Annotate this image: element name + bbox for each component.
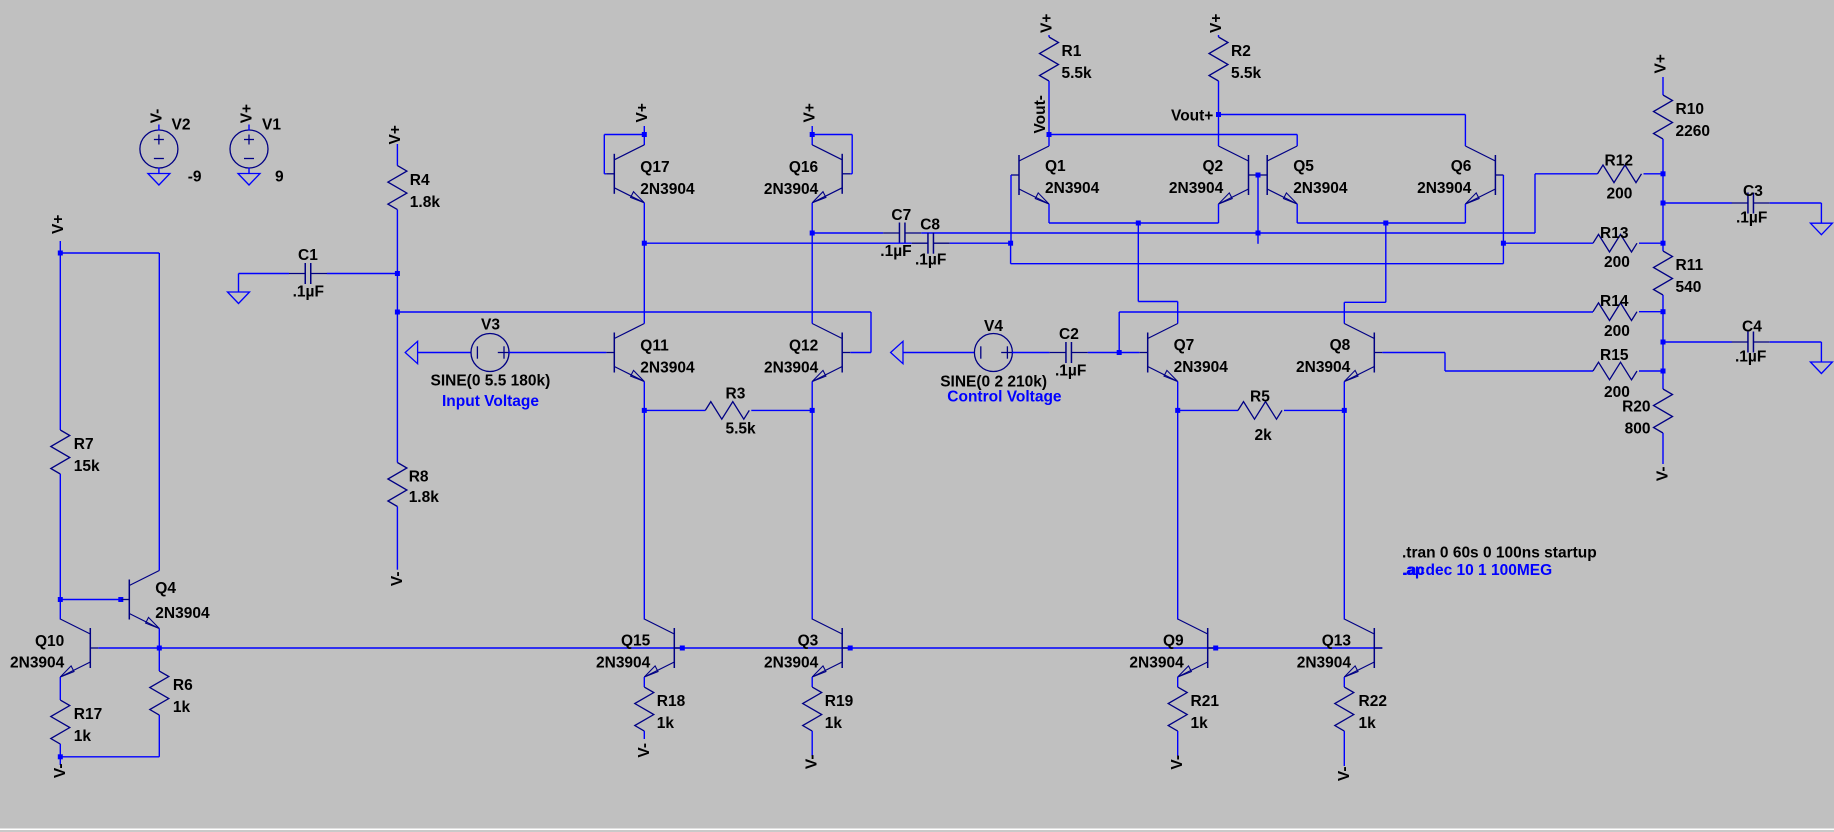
wire Vout+ to Q2 collector [1218,115,1220,147]
junction node V+ left [58,251,63,256]
wire Q5-Q6 emitter run [1297,222,1465,224]
wire Q16 base tie down [851,135,853,174]
wire emitters down to Q7 [1137,223,1139,302]
svg-text:200: 200 [1607,185,1633,202]
svg-text:Q1: Q1 [1045,158,1066,175]
svg-text:.1µF: .1µF [1055,363,1086,380]
svg-text:Q4: Q4 [155,580,176,597]
svg-text:V-: V- [1336,767,1353,782]
resistor R8 [388,463,407,507]
junction C3/rail [1661,201,1666,206]
wire rail to C3 [1663,202,1732,204]
svg-text:2N3904: 2N3904 [1293,180,1348,197]
svg-text:.1µF: .1µF [1735,349,1766,366]
wire Q2-Q5 base tie [1257,174,1260,176]
svg-text:Q7: Q7 [1174,337,1195,354]
wire C3 to ground corner [1770,202,1822,204]
svg-text:2N3904: 2N3904 [1297,655,1352,672]
wire Q7 collector stub [1177,302,1179,324]
svg-text:V-: V- [804,755,821,770]
svg-text:200: 200 [1604,384,1630,401]
svg-text:200: 200 [1604,254,1630,271]
wire down to Q6 collector [1464,115,1466,147]
wire rail to C4 [1663,341,1732,343]
junction R12/rail [1661,171,1666,176]
wire R6 top to rail [158,648,160,671]
resistor R1 [1040,37,1059,81]
wire C2 to Q7 base [1088,352,1140,354]
wire R1 to Vout- node [1048,81,1050,135]
svg-text:C1: C1 [298,247,318,264]
resistor R3 [705,402,749,420]
junction Q16 emitter [810,231,815,236]
port arrow at V4 [891,341,903,363]
capacitor C7 [883,223,921,244]
svg-text:200: 200 [1604,323,1630,340]
wire V1 minus stub [248,168,250,174]
junction R7/Q4 base/Q10 collector [58,597,63,602]
junction R15/rail [1661,369,1666,374]
junction R14/rail [1661,309,1666,314]
wire C7 long run [921,232,1535,234]
svg-text:Q10: Q10 [35,633,64,650]
wire jog to Q8 collector [1344,301,1386,303]
transistor Q1 [1011,146,1049,204]
wire ground to C1 [239,273,290,275]
port arrow at V3 [405,341,417,363]
wire Q17 base tie down [603,135,605,174]
svg-text:Control Voltage: Control Voltage [947,389,1062,406]
wire C8 to Q1 base node [950,242,1011,244]
wire R21 to V- [1177,731,1179,756]
resistor R2 [1209,37,1228,81]
svg-text:.1µF: .1µF [880,243,911,260]
transistor Q2 [1219,146,1257,204]
wire Q1 emitter down [1048,204,1050,223]
svg-text:V+: V+ [239,104,256,123]
voltage source V2 [140,130,178,168]
svg-text:Q8: Q8 [1330,337,1351,354]
svg-text:1k: 1k [1191,715,1209,732]
svg-text:Vout-: Vout- [1032,95,1049,133]
svg-text:1k: 1k [825,715,843,732]
svg-text:2260: 2260 [1676,123,1710,140]
svg-text:1k: 1k [1359,715,1377,732]
wire Q16 collector stub [811,135,813,146]
junction C8/Q1 base [1008,241,1013,246]
svg-text:1.8k: 1.8k [409,489,440,506]
svg-text:V+: V+ [1208,14,1225,33]
wire R18 to V- [643,731,645,739]
wire corner down to Q12 base [870,312,872,353]
svg-text:2N3904: 2N3904 [596,655,651,672]
resistor R7 [51,430,70,474]
svg-text:Q15: Q15 [621,633,651,650]
junction Q17 collector tie [642,132,647,137]
wire Q10 emitter to R17 [59,677,61,700]
resistor R13 [1593,234,1637,252]
wire V+ to R1 [1048,35,1050,37]
transistor Q7 [1140,324,1178,382]
junction Q15 base on rail [680,646,685,651]
transistor Q17 [606,145,644,203]
wire V4 to C2 [1012,352,1050,354]
resistor R4 [388,166,407,210]
svg-text:R20: R20 [1622,399,1650,416]
svg-text:Q9: Q9 [1163,633,1184,650]
wire C4 to ground corner [1770,341,1822,343]
resistor R14 [1593,303,1637,321]
svg-text:R14: R14 [1600,293,1629,310]
wire arrow to V3 [417,352,472,354]
svg-text:R15: R15 [1600,347,1629,364]
svg-text:V+: V+ [1653,54,1670,73]
svg-text:.1µF: .1µF [1736,210,1767,227]
capacitor C3 [1732,193,1770,214]
svg-text:1k: 1k [657,715,675,732]
resistor R17 [51,700,70,744]
junction C4/rail [1661,340,1666,345]
wire Q1-Q2 emitter run [1049,222,1219,224]
wire R17 to V- node [59,744,61,757]
wire Q2 emitter down [1218,204,1220,223]
wire Q6 base down [1502,175,1504,243]
wire V+ stub [59,241,61,253]
wire V2 plus stub [158,125,160,131]
wire V2 minus stub [158,168,160,174]
svg-text:V-: V- [52,764,69,779]
wire to R15 [1445,370,1593,372]
svg-text:V-: V- [148,109,165,124]
svg-text:V+: V+ [802,103,819,122]
resistor R21 [1168,687,1187,731]
wire jog to Q7 collector [1138,301,1177,303]
junction R5 right [1342,408,1347,413]
svg-text:R19: R19 [825,693,854,710]
resistor R22 [1335,687,1354,731]
resistor R12 [1598,165,1642,183]
wire node down [396,274,398,313]
wire Q17 emitter down [643,203,645,243]
svg-text:R8: R8 [409,468,429,485]
svg-text:V+: V+ [387,125,404,144]
wire to Q12 base pin [850,352,871,354]
resistor R20 [1654,389,1673,433]
resistor R18 [635,687,654,731]
voltage source V3 [471,334,510,372]
wire R5 right lead [1284,409,1344,411]
wire node down [1010,243,1012,264]
wire C1 to node [327,273,398,275]
svg-text:Q11: Q11 [640,338,669,355]
junction Q9 base on rail [1213,646,1218,651]
transistor Q6 [1465,146,1503,204]
wire Q16 base tie top [812,134,852,136]
wire V+ to R4 [396,144,398,166]
wire Q8 emitter down [1343,382,1345,411]
svg-text:C3: C3 [1743,183,1763,200]
wire down to ground [1820,203,1822,223]
svg-text:2N3904: 2N3904 [640,360,695,377]
svg-text:C7: C7 [891,207,911,224]
svg-text:R13: R13 [1600,225,1629,242]
junction Q5/Q6 emitters [1383,221,1388,226]
junction Q3 base on rail [848,646,853,651]
resistor R6 [150,671,169,715]
transistor Q16 [812,145,850,203]
wire R4 to C1 node [396,210,398,274]
transistor Q4 [121,571,159,629]
svg-text:R22: R22 [1359,693,1387,710]
svg-text:.ac: .ac [1404,562,1426,579]
svg-text:R17: R17 [74,706,102,723]
ground at C4 [1810,362,1832,374]
wire V3 to Q11 base [509,352,607,354]
wire Q8 collector stub [1343,302,1345,323]
transistor Q5 [1259,146,1297,204]
transistor Q3 [812,619,850,677]
junction R8 node [395,310,400,315]
wire R11 to R20 [1662,295,1664,389]
wire Q4 emitter down [158,629,160,649]
wire R7 to node [59,474,61,620]
resistor R19 [803,687,822,731]
svg-text:R7: R7 [74,436,94,453]
svg-text:R6: R6 [173,677,193,694]
wire Q9 emitter to R21 [1177,677,1179,687]
svg-text:R3: R3 [726,385,746,402]
ground at C1 [228,292,250,304]
wire R3 left lead [644,409,705,411]
svg-text:V+: V+ [50,215,67,234]
junction Q4 emitter/Q10 base/R6 [157,646,162,651]
wire Q16 emitter down [811,203,813,233]
wire Q3 emitter to R19 [811,677,813,687]
svg-text:Q5: Q5 [1293,158,1314,175]
wire run to R14 [1119,311,1593,313]
wire arrow to V4 [903,352,975,354]
wire node to R8 [396,312,398,463]
svg-text:2N3904: 2N3904 [1045,180,1100,197]
svg-text:Vout+: Vout+ [1171,108,1213,125]
wire V+ to R2 [1218,35,1220,37]
ground at C3 [1810,223,1832,235]
wire cross run to Q6 base [1011,263,1504,265]
svg-text:.1µF: .1µF [293,284,324,301]
wire Q5 emitter down [1296,204,1298,223]
wire Q12 emitter down [811,382,813,411]
junction Q1/Q2 emitters [1136,221,1141,226]
wire Q1 collector stub [1048,135,1050,147]
svg-text:800: 800 [1625,421,1651,438]
wire Q11 emitter down [643,382,645,411]
wire R17 to R6 bottom [60,756,159,758]
svg-text:R1: R1 [1062,43,1082,60]
resistor R11 [1654,251,1673,295]
svg-text:C2: C2 [1059,326,1079,343]
svg-text:C8: C8 [920,216,940,233]
svg-text:V-: V- [389,572,406,587]
svg-text:2N3904: 2N3904 [640,181,695,198]
wire Q15 emitter to R18 [643,677,645,687]
wire down to Q3 collector [811,410,813,619]
svg-text:Input Voltage: Input Voltage [442,393,539,410]
wire down to Q4 collector [158,253,160,571]
wire R3 right lead [751,409,812,411]
wire R10 to R11 [1662,139,1664,251]
capacitor C2 [1050,342,1088,363]
svg-text:2N3904: 2N3904 [10,654,65,671]
svg-text:V2: V2 [172,117,191,134]
junction Vout- [1047,132,1052,137]
svg-text:C4: C4 [1742,319,1762,336]
svg-text:5.5k: 5.5k [1231,65,1262,82]
svg-text:2N3904: 2N3904 [1169,180,1224,197]
wire R20 to V- [1662,433,1664,464]
svg-text:R12: R12 [1605,153,1633,170]
svg-text:V1: V1 [262,117,281,134]
svg-text:R18: R18 [657,693,686,710]
svg-text:R21: R21 [1191,693,1220,710]
transistor Q9 [1178,619,1216,677]
wire up to R6 [158,715,160,757]
junction Q16 collector tie [810,132,815,137]
wire R13 right lead [1639,242,1663,244]
svg-text:2N3904: 2N3904 [1174,359,1229,376]
svg-text:V-: V- [636,743,653,758]
wire V1 plus stub [248,125,250,131]
wire down to ground [1820,342,1822,362]
junction Vout+ [1216,112,1221,117]
svg-text:.1µF: .1µF [915,252,946,269]
svg-text:Q13: Q13 [1322,633,1352,650]
capacitor C1 [289,263,327,284]
svg-text:2N3904: 2N3904 [764,181,819,198]
svg-text:V+: V+ [634,103,651,122]
junction C2/Q7 base [1117,350,1122,355]
svg-text:2N3904: 2N3904 [155,605,210,622]
wire R19 to V- [811,731,813,756]
wire long run up to R12 [1534,174,1536,233]
wire Q17 emitter to Q11 collector [643,243,645,323]
voltage source V1 [230,130,268,168]
junction R4/C1 [395,271,400,276]
wire Q7 emitter down [1177,382,1179,411]
junction base tie on long run [1256,231,1261,236]
resistor R10 [1654,95,1673,139]
svg-text:R4: R4 [410,172,430,189]
svg-text:Q16: Q16 [789,159,819,176]
svg-text:9: 9 [275,168,284,185]
capacitor C8 [912,233,950,254]
wire V+ to Q17 [643,126,645,135]
wire R2 to Vout+ node [1218,81,1220,115]
wire node to Q12 base run [397,311,871,313]
wire Q8 base right [1382,352,1445,354]
svg-text:-9: -9 [188,168,202,185]
wire R12 right lead [1644,173,1664,175]
wire down to Q15 collector [643,410,645,619]
svg-text:SINE(0 5.5 180k): SINE(0 5.5 180k) [431,373,551,390]
wire R8 to V- [396,507,398,570]
transistor Q11 [606,324,644,382]
ground at V1 [238,174,260,186]
svg-text:2N3904: 2N3904 [1129,655,1184,672]
resistor R5 [1238,402,1282,420]
wire down to Q9 collector [1177,410,1179,619]
junction R3 left [642,408,647,413]
svg-text:15k: 15k [74,458,100,475]
wire C1 ground stub [238,274,240,293]
transistor Q10 [60,619,98,677]
svg-text:R2: R2 [1231,43,1251,60]
wire Q16 emitter to C7 [812,232,883,234]
wire Q5 collector stub [1296,135,1298,147]
svg-text:Q3: Q3 [798,633,819,650]
wire R22 to V- [1343,731,1345,766]
wire Vout- to Q5 collector [1049,134,1297,136]
svg-text:5.5k: 5.5k [726,420,757,437]
svg-text:Q2: Q2 [1203,158,1224,175]
resistor R15 [1593,362,1637,380]
wire down to Q13 collector [1343,410,1345,619]
svg-text:1k: 1k [173,699,191,716]
wire Q17 emitter to C8 [644,242,911,244]
svg-text:540: 540 [1676,279,1702,296]
wire Q17 base tie top [604,134,644,136]
svg-text:R10: R10 [1676,101,1704,118]
junction Q2/Q5 bases [1256,173,1261,178]
wire Vout+ to Q6 collector run [1219,114,1466,116]
wire corner down to R15 [1444,353,1446,372]
wire V+ to Q16 [811,126,813,135]
svg-text:1k: 1k [74,728,92,745]
wire base rail across bottom [98,647,1382,649]
ground at V2 [148,174,170,186]
wire Q6 base to R13 [1503,242,1593,244]
svg-text:V-: V- [1169,755,1186,770]
svg-text:Q12: Q12 [789,338,818,355]
svg-text:R5: R5 [1250,389,1270,406]
wire node up to R14 run [1118,312,1120,353]
junction R5 left [1175,408,1180,413]
svg-text:1.8k: 1.8k [410,194,441,211]
transistor Q13 [1344,619,1382,677]
wire Q1 base down [1010,175,1012,243]
wire V- stub left [59,757,61,765]
wire up to Q6 base node [1502,243,1504,264]
svg-text:V-: V- [1655,467,1672,482]
window edge strip [0,829,1834,831]
transistor Q8 [1344,324,1382,382]
transistor Q12 [812,324,850,382]
svg-text:2N3904: 2N3904 [1296,359,1351,376]
junction Q17 emitter [642,241,647,246]
junction R13/rail [1661,241,1666,246]
svg-text:2N3904: 2N3904 [764,655,819,672]
wire R15 right lead [1639,370,1663,372]
junction R17/R6 bottom [58,754,63,759]
capacitor C4 [1732,332,1770,353]
svg-text:V3: V3 [481,317,500,334]
svg-text:V4: V4 [984,318,1003,335]
voltage source V4 [974,334,1013,372]
wire R12 left lead [1535,173,1598,175]
wire V+ to R7 [59,253,61,430]
wire V+ to R10 [1662,77,1664,95]
wire Q6 emitter down [1464,204,1466,223]
wire Q17 collector stub [643,135,645,146]
